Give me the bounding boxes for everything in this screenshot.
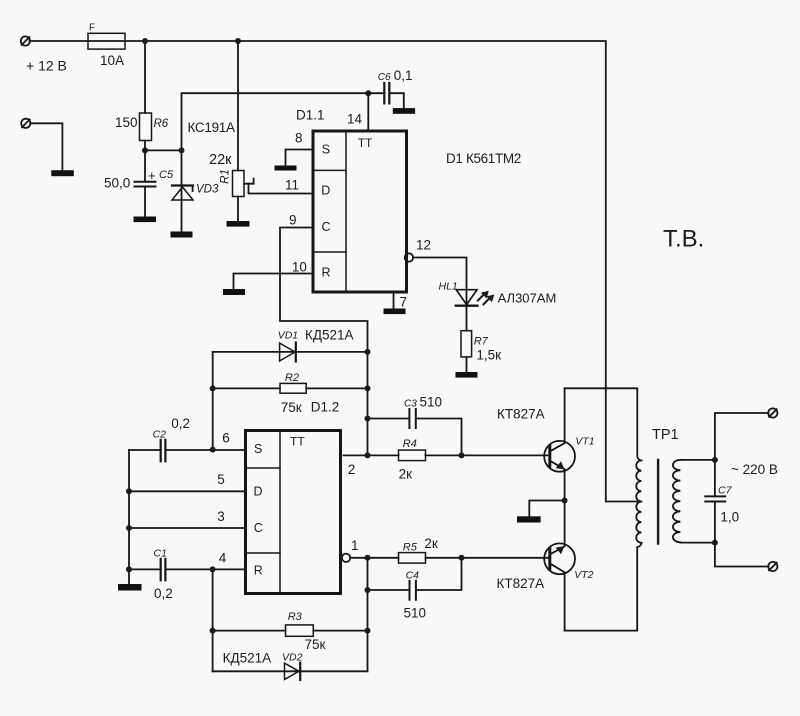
svg-text:8: 8 (295, 131, 303, 146)
svg-text:ТТ: ТТ (290, 435, 305, 449)
svg-text:R: R (322, 266, 331, 280)
svg-text:2: 2 (348, 462, 356, 477)
svg-text:1,5к: 1,5к (476, 348, 501, 363)
svg-text:Т.В.: Т.В. (663, 226, 704, 253)
svg-text:~ 220 В: ~ 220 В (731, 462, 778, 477)
svg-text:1: 1 (351, 538, 359, 553)
svg-text:R3: R3 (288, 611, 303, 623)
svg-text:4: 4 (219, 551, 227, 566)
svg-text:С2: С2 (153, 429, 167, 441)
svg-text:R5: R5 (403, 542, 418, 554)
svg-text:6: 6 (222, 431, 230, 446)
svg-text:R: R (254, 564, 263, 578)
svg-text:D: D (321, 184, 330, 198)
svg-text:R1: R1 (220, 169, 232, 184)
svg-text:С3: С3 (404, 398, 417, 409)
svg-text:С7: С7 (718, 484, 733, 496)
svg-text:22к: 22к (209, 152, 232, 168)
svg-text:+: + (148, 168, 156, 183)
svg-text:75к: 75к (281, 400, 302, 415)
svg-text:0,2: 0,2 (171, 416, 190, 431)
svg-text:КТ827А: КТ827А (497, 576, 545, 591)
svg-text:R7: R7 (474, 336, 489, 348)
svg-text:150: 150 (115, 115, 138, 130)
svg-text:КД521А: КД521А (305, 328, 354, 343)
svg-text:VD2: VD2 (282, 652, 303, 664)
svg-text:9: 9 (289, 213, 297, 228)
svg-text:АЛ307АМ: АЛ307АМ (498, 291, 557, 306)
svg-text:VD1: VD1 (278, 330, 298, 342)
svg-text:S: S (322, 143, 330, 157)
svg-text:С4: С4 (406, 570, 420, 582)
svg-text:75к: 75к (305, 637, 326, 652)
svg-text:50,0: 50,0 (104, 176, 130, 191)
svg-text:VT1: VT1 (575, 436, 594, 448)
svg-text:F: F (89, 23, 95, 34)
svg-text:КД521А: КД521А (223, 650, 272, 665)
svg-text:С5: С5 (159, 169, 174, 181)
svg-text:D: D (254, 485, 263, 499)
svg-text:12: 12 (416, 238, 431, 253)
svg-text:14: 14 (347, 112, 363, 127)
svg-text:C: C (322, 220, 331, 234)
svg-text:2к: 2к (399, 467, 413, 482)
svg-text:510: 510 (404, 606, 427, 621)
svg-text:R2: R2 (285, 372, 299, 384)
svg-text:D1.1: D1.1 (296, 108, 325, 123)
svg-text:D1 К561ТМ2: D1 К561ТМ2 (446, 151, 521, 166)
svg-text:С6: С6 (378, 72, 391, 83)
svg-text:КС191А: КС191А (188, 120, 235, 135)
svg-text:5: 5 (217, 472, 225, 487)
svg-text:С1: С1 (154, 548, 167, 560)
svg-text:C: C (254, 521, 263, 535)
svg-text:S: S (254, 442, 262, 456)
svg-text:+ 12 В: + 12 В (26, 58, 67, 74)
svg-text:D1.2: D1.2 (311, 400, 340, 415)
svg-text:11: 11 (285, 178, 299, 193)
svg-text:510: 510 (420, 395, 443, 410)
svg-text:HL1: HL1 (439, 281, 458, 293)
svg-text:R4: R4 (403, 438, 417, 450)
svg-text:ТТ: ТТ (358, 136, 373, 150)
svg-text:10А: 10А (100, 53, 124, 68)
svg-text:1,0: 1,0 (720, 509, 739, 524)
svg-text:3: 3 (217, 509, 225, 524)
svg-text:VD3: VD3 (196, 184, 219, 196)
svg-text:0,2: 0,2 (154, 586, 173, 601)
svg-text:0,1: 0,1 (394, 68, 413, 83)
svg-text:7: 7 (400, 295, 408, 310)
svg-text:2к: 2к (424, 536, 438, 551)
svg-text:КТ827А: КТ827А (497, 407, 545, 422)
svg-text:R6: R6 (154, 118, 169, 130)
svg-text:VT2: VT2 (574, 569, 593, 581)
svg-text:ТР1: ТР1 (652, 427, 679, 443)
svg-text:10: 10 (292, 260, 307, 275)
